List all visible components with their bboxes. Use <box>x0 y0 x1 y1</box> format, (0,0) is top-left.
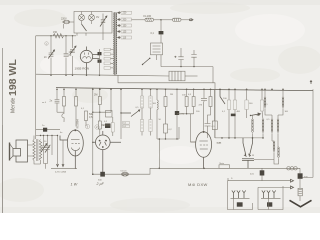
wire top feed line <box>36 35 76 37</box>
grid capacitor C12 <box>201 89 207 131</box>
misc tiny labels <box>44 94 289 180</box>
transformer primary tap labels <box>118 11 132 39</box>
wire to switch box <box>160 34 162 43</box>
switch arm S6 <box>249 138 253 156</box>
osc coil L14 <box>252 116 254 138</box>
gang2 trimmer t1 <box>262 191 265 199</box>
IF resistor R20 <box>140 120 143 136</box>
wire AVC drop <box>120 89 122 139</box>
wire cap bottom line <box>161 55 213 67</box>
det coil L7 <box>157 89 158 139</box>
wire join g <box>177 114 196 142</box>
switch arm S3 <box>220 89 225 104</box>
fuse F2 <box>161 18 189 21</box>
wire speaker to transformer <box>28 136 41 165</box>
svg-text:FL100: FL100 <box>144 14 152 18</box>
node row on ground rail <box>221 137 264 139</box>
scan edge left <box>2 48 3 213</box>
svg-text:M4i DXW: M4i DXW <box>188 182 208 187</box>
osc coil L12 <box>272 141 275 160</box>
tube id circle 2 <box>95 125 99 129</box>
mains transformer T1 <box>113 12 117 76</box>
potentiometer P1 <box>100 14 107 34</box>
plug connector <box>189 19 193 21</box>
gang2 frame <box>258 186 283 210</box>
svg-text:1955 RGN: 1955 RGN <box>75 67 90 71</box>
coupler circles <box>287 167 297 170</box>
resistor R6 <box>98 121 101 135</box>
wire coil bottoms to switch <box>254 159 274 161</box>
tone line wire <box>36 129 60 131</box>
variable capacitor C3 <box>70 36 76 76</box>
earth symbol <box>290 200 312 207</box>
wire B plus drop <box>212 67 214 83</box>
resistor R (series, zigzag) <box>53 34 64 38</box>
marker m1 <box>45 42 49 46</box>
wire to earth <box>299 196 301 201</box>
switch arm S2 <box>142 58 151 66</box>
gang2 trimmer t2 <box>267 191 270 199</box>
svg-text:150: 150 <box>53 31 58 34</box>
fuse line wire <box>132 19 146 21</box>
gang2 trimmer t3 <box>272 191 275 199</box>
resistor R3 <box>75 89 78 126</box>
resistor R23 <box>111 117 114 136</box>
osc coil L13 <box>274 147 279 164</box>
svg-text:Mende: Mende <box>11 97 17 113</box>
small unit box <box>106 111 113 118</box>
gang2 base <box>261 197 281 199</box>
left rail wire <box>35 36 37 139</box>
resistor col R12 <box>227 89 230 138</box>
electrolytic C8 <box>191 50 196 67</box>
svg-text:4V: 4V <box>96 15 99 19</box>
wire gang links <box>228 178 269 210</box>
gang1 trimmer t2 <box>237 191 240 199</box>
dial lamp L1 <box>79 12 85 25</box>
capacitor block C5 <box>98 60 102 63</box>
output tube V1 RES964 <box>60 129 83 168</box>
tone capacitor C15 <box>41 136 47 164</box>
capacitor block C10 <box>105 124 111 129</box>
svg-text:4+H-T+DEA: 4+H-T+DEA <box>55 170 67 173</box>
svg-text:Netz: Netz <box>220 162 225 165</box>
switch arm S5 <box>243 138 246 156</box>
capacitor block C4 <box>98 52 102 55</box>
wire cap column <box>99 49 101 75</box>
capacitor C2 <box>64 36 69 76</box>
osc coil L11 <box>277 115 279 147</box>
output transformer T2 <box>33 139 42 161</box>
label boxes a-n <box>123 122 130 125</box>
capacitor block C17 <box>260 168 265 180</box>
capacitor block C16 <box>100 172 105 177</box>
gang2 padder block <box>267 202 272 206</box>
IF resistor R22 <box>149 120 152 136</box>
model name text rotated <box>7 59 19 113</box>
osc coil L15 <box>262 111 264 138</box>
gang1 base <box>231 197 250 199</box>
upper bus wire <box>118 76 215 90</box>
capacitor C9 <box>55 89 60 112</box>
top link wire <box>36 135 58 137</box>
osc coil L10 <box>271 115 273 141</box>
IF resistor R19 <box>140 89 143 119</box>
IF resistor R21 <box>149 89 152 119</box>
gang1 trimmer t1 <box>232 191 235 199</box>
electrolytic C7 <box>175 48 184 67</box>
switch box unit <box>151 43 163 55</box>
wire join <box>57 111 64 113</box>
wire drop a <box>51 136 53 156</box>
wire choke leads <box>185 75 198 77</box>
resistor col R14 <box>245 89 248 118</box>
gang1 trimmer t3 <box>242 191 245 199</box>
antenna coil L9 <box>278 89 284 115</box>
resistor col R13 <box>233 89 236 138</box>
variable capacitor C1 <box>48 36 54 76</box>
svg-text:1 W: 1 W <box>71 183 78 187</box>
bus junctions <box>56 89 284 91</box>
svg-text:Umsch: Umsch <box>121 170 127 172</box>
wire drop c arrow <box>62 140 64 167</box>
chassis line under rectifier <box>36 74 169 76</box>
RF pentode V3 <box>196 131 212 168</box>
svg-text:2M: 2M <box>170 94 173 96</box>
gang feed line 2 <box>258 186 294 189</box>
resistor R9 <box>185 89 188 114</box>
netz box <box>219 165 230 169</box>
svg-text:RES964: RES964 <box>77 119 80 129</box>
top right terminal <box>310 81 312 85</box>
main HT bus wire <box>56 88 313 91</box>
svg-text:198 WL: 198 WL <box>7 59 19 96</box>
wire loop <box>62 112 64 122</box>
resistor col R16 <box>260 89 263 138</box>
dial lamp box <box>74 12 112 34</box>
transformer secondary tap labels <box>104 48 113 69</box>
detector tube V2 socket <box>93 131 121 172</box>
capacitor C13 <box>205 124 211 138</box>
wire right col <box>299 168 301 188</box>
svg-text:220V: 220V <box>61 18 67 21</box>
node top <box>160 19 162 21</box>
resistor R18 hatched <box>298 188 302 196</box>
wire drop c <box>176 89 178 111</box>
resistor R2 <box>63 89 66 112</box>
ground rail mid wire <box>215 89 263 138</box>
capacitor block C11 <box>175 111 179 115</box>
switch contact bar <box>242 159 254 169</box>
wire down from fuse node <box>160 20 162 31</box>
gang1 frame <box>228 181 253 210</box>
svg-text:2 µF: 2 µF <box>96 182 105 186</box>
switch arm detector <box>120 110 140 117</box>
node on feed line <box>50 35 51 36</box>
antenna coil L8 <box>264 89 272 115</box>
gang feed line 1 <box>228 179 294 182</box>
svg-text:+: + <box>175 55 177 59</box>
phone jack pair <box>121 172 128 176</box>
switch S1 <box>82 24 87 31</box>
wire grid return line <box>157 127 179 168</box>
gang1 padder block <box>237 202 243 206</box>
box unit <box>212 89 217 138</box>
resistor R11 <box>208 89 213 123</box>
right rail wire <box>303 89 314 177</box>
rectifier tube U1 <box>80 47 99 76</box>
resistor R5 <box>98 89 101 121</box>
resistor R10 <box>192 89 195 114</box>
chassis line wire <box>93 168 300 174</box>
capacitor block C6 <box>159 31 164 34</box>
svg-text:2M: 2M <box>94 94 97 97</box>
resistor R7 <box>164 89 167 124</box>
wire tone bottoms <box>44 164 48 169</box>
switch arm S4 <box>250 113 261 116</box>
wire drop b arrow <box>57 136 59 167</box>
wire to grid join <box>176 115 178 139</box>
wire tube left leads <box>191 141 196 143</box>
tone resistor R17 <box>45 136 50 164</box>
capacitor block C18 <box>298 173 303 179</box>
capacitor block C14 <box>43 128 47 132</box>
svg-text:W: W <box>252 155 254 157</box>
heater line left wire <box>51 168 77 170</box>
resistor R4 <box>85 111 88 126</box>
resistor R8 <box>164 124 168 139</box>
field coil choke box <box>169 71 185 81</box>
speaker LS <box>10 140 28 162</box>
mains entry connector <box>62 20 74 24</box>
svg-text:REN904: REN904 <box>101 124 111 127</box>
dial lamp L2 <box>89 12 95 25</box>
wire screen feed <box>92 89 94 174</box>
wire below switch box <box>156 55 158 60</box>
tube id circle <box>85 124 89 128</box>
wire join mid <box>93 89 111 112</box>
